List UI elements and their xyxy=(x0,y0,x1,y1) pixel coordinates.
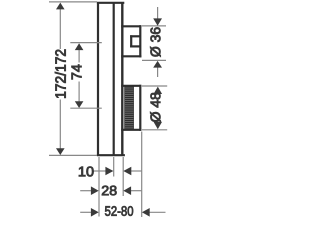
row1 tail right xyxy=(131,170,142,172)
arrow 172 top xyxy=(56,3,65,10)
ext U36 bottom xyxy=(142,59,166,61)
knurl stripes xyxy=(125,88,133,128)
knob U48 front face xyxy=(139,85,141,131)
knurl left boundary xyxy=(124,86,126,130)
knurl texture xyxy=(124,86,133,129)
button U36 notch top edge xyxy=(130,35,140,37)
arrow row2 left xyxy=(91,186,99,195)
ext vertical wall xyxy=(98,157,100,217)
arrow 74 top xyxy=(75,43,84,50)
arrow row1 left (right-pointing) xyxy=(105,167,113,175)
plate front line xyxy=(121,3,123,155)
arrow U48 top (up) xyxy=(154,87,163,94)
label 28 xyxy=(102,186,116,196)
row2 tail right xyxy=(131,190,142,192)
dimension extension lines (gray) xyxy=(49,2,167,217)
arrow row3 right xyxy=(142,208,150,217)
ext 74 bottom (axis U48) xyxy=(70,107,102,109)
arrow 172 bottom xyxy=(56,148,65,155)
label 172/172 xyxy=(55,50,66,98)
label U48 xyxy=(150,93,160,122)
ext bottom 172 xyxy=(49,154,97,156)
row2 tail left xyxy=(80,190,91,192)
arrow U36 top (down) xyxy=(153,18,162,25)
ext top 172 xyxy=(49,1,97,3)
plate bottom cap xyxy=(97,154,125,156)
ext vertical plate back xyxy=(113,157,115,177)
wall line xyxy=(97,3,99,155)
ext 74 top (axis U36) xyxy=(70,42,102,44)
ext U36 top xyxy=(142,25,166,27)
arrows xyxy=(56,3,162,217)
plate top cap xyxy=(97,2,124,4)
knob U48 bottom edge xyxy=(121,129,141,131)
arrow row2 right xyxy=(123,186,131,195)
label 74 xyxy=(72,65,82,80)
U36 bottom stub xyxy=(157,67,159,77)
plate back line xyxy=(113,3,115,155)
ext U48 bottom xyxy=(142,129,167,131)
label 10 xyxy=(79,167,93,177)
knurl right boundary xyxy=(132,86,134,130)
button U36 notch left edge xyxy=(130,35,132,47)
arrow 74 bottom xyxy=(75,101,84,108)
ext vertical plate front xyxy=(122,157,124,196)
arrow row1 right (left-pointing) xyxy=(123,167,131,175)
button U36 bottom edge xyxy=(121,55,141,57)
dim line 74 lower xyxy=(78,82,80,102)
button U36 notch bottom edge xyxy=(130,45,140,47)
button U36 front face xyxy=(139,25,141,57)
row3 tail right xyxy=(149,211,165,213)
knob U48 top edge xyxy=(121,85,141,87)
dim line 74 upper xyxy=(78,50,80,63)
dim line 172 upper xyxy=(59,9,61,49)
arrow row3 left xyxy=(91,208,99,217)
row3 tail left xyxy=(80,211,91,213)
label U36 xyxy=(150,28,160,57)
dim line 172 lower xyxy=(59,100,61,149)
ext U48 top xyxy=(142,85,167,87)
arrow U36 bottom (up) xyxy=(153,61,162,68)
ext vertical handle front xyxy=(141,132,143,218)
arrow U48 bottom (down) xyxy=(154,122,163,129)
button U36 top edge xyxy=(121,25,141,27)
U36 top stub xyxy=(157,7,159,19)
row1 leader left xyxy=(94,170,107,172)
label 52-80 xyxy=(105,206,133,216)
